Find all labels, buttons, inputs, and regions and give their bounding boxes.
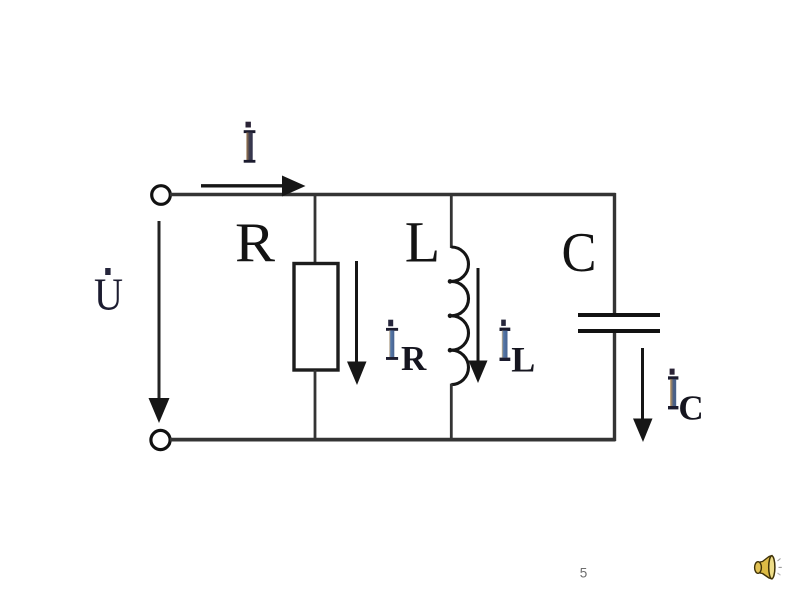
wire (capacitor branch, lower): [613, 333, 616, 441]
terminal T2 (bottom-left open circle): [151, 430, 170, 449]
wire (bottom, from T2 to bottom-right corner): [170, 438, 616, 442]
wire (resistor branch, lower): [314, 370, 317, 440]
svg-text:C: C: [678, 388, 703, 427]
speaker icon (gold clip-art, bottom right): [755, 556, 782, 580]
svg-text:L: L: [511, 340, 535, 380]
svg-text:U: U: [94, 269, 123, 320]
current arrow I (pointing right above top wire): [201, 176, 306, 197]
current arrow IC (down, right of capacitor): [633, 348, 653, 442]
current arrow IL (down, right of inductor): [469, 268, 488, 383]
current arrow IR (down, right of resistor): [347, 261, 367, 385]
voltage label U (dot above): [94, 268, 123, 320]
capacitor C (two horizontal plates): [578, 313, 660, 333]
svg-text:L: L: [405, 210, 440, 275]
svg-text:R: R: [235, 212, 276, 274]
current label I (dot above, source current): [244, 122, 256, 163]
wire (inductor branch, upper): [450, 194, 453, 248]
current label IC (blue I with dot, subscript C): [668, 369, 704, 428]
current label IR (blue I with dot, subscript R): [386, 320, 427, 379]
wire (right side / capacitor branch, upper): [613, 193, 616, 313]
wire (inductor branch, lower): [450, 384, 453, 440]
inductor L (4 right-bulging arcs): [451, 247, 468, 385]
wire (top, from T1 to top-right corner): [170, 193, 616, 197]
voltage arrow U (downward between terminals): [149, 221, 170, 423]
current label IL (blue I with dot, subscript L): [500, 320, 536, 380]
svg-text:R: R: [401, 339, 427, 378]
wire (resistor branch, upper): [314, 194, 317, 264]
terminal T1 (top-left open circle): [152, 186, 171, 205]
svg-text:C: C: [562, 222, 597, 284]
svg-text:5: 5: [580, 566, 588, 581]
resistor R (rectangle body): [294, 264, 338, 371]
